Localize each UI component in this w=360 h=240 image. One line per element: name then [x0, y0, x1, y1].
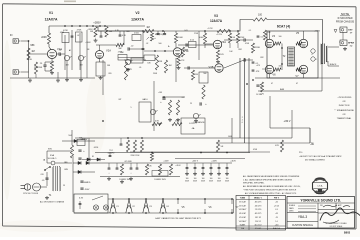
wire OT down [321, 63, 323, 91]
svg-text:6A10: 6A10 [142, 98, 148, 101]
ground chain b [130, 177, 132, 179]
junction input bus [28, 40, 30, 42]
resistor V3B grid [191, 70, 194, 80]
junction top mid [102, 120, 104, 122]
wire mixer vertical 1 [64, 35, 66, 70]
svg-text:470K: 470K [253, 149, 258, 151]
capacitor HV filter 1 [78, 149, 81, 151]
svg-text:.02: .02 [77, 35, 80, 37]
capacitor PI coupling 2 [243, 58, 245, 61]
wire PS vertical main [72, 156, 74, 212]
resistor mid 1 [124, 62, 127, 80]
svg-text:+465 V: +465 V [192, 161, 199, 163]
resistor screen V4 [274, 42, 281, 45]
capacitor filter bank 2 [194, 163, 196, 168]
resistor cathode R3 [50, 61, 53, 71]
svg-text:1M: 1M [107, 65, 110, 67]
wire B+ rail lower [98, 20, 253, 32]
ground input bus [29, 79, 31, 81]
wire V3 coupling top [224, 39, 244, 41]
svg-text:DWG: DWG [289, 211, 294, 213]
junction V3 divider [229, 30, 231, 32]
svg-text:(NO SIGNAL) CURRENT.: (NO SIGNAL) CURRENT. [305, 159, 326, 162]
resistor mid 3 [168, 100, 171, 115]
resistor chain top [150, 153, 153, 162]
resistor tone mid [155, 55, 158, 70]
svg-text:T2: T2 [283, 55, 286, 58]
ground chain c [121, 180, 123, 182]
box voltage selector [181, 118, 205, 134]
wire mid vertical b [175, 58, 177, 82]
svg-text:47: 47 [296, 83, 298, 85]
svg-text:+: + [83, 150, 85, 153]
transformer driver T2 [288, 47, 295, 66]
capacitor coupling C2 [58, 52, 60, 55]
wire V3 divider [230, 31, 238, 48]
title block header [287, 202, 355, 204]
svg-text:+: + [160, 101, 162, 104]
svg-text:INJECTION: INJECTION [339, 105, 350, 107]
capacitor V3A input a [185, 43, 187, 46]
svg-text:DO NOT SCALE: DO NOT SCALE [330, 225, 343, 228]
ground mid [169, 118, 171, 120]
svg-text:→PICKUP/FWD: →PICKUP/FWD [337, 97, 352, 99]
diode rect 2 [86, 161, 89, 164]
resistor mid 2 [164, 60, 167, 73]
svg-text:V5: V5 [296, 31, 300, 35]
svg-text:ALL VOLTAGES MEASURED WITH VTV: ALL VOLTAGES MEASURED WITH VTVM — AC LIN… [245, 192, 297, 195]
svg-text:V3: V3 [214, 14, 218, 18]
svg-text:440 2/70: 440 2/70 [255, 205, 262, 207]
transformer output T3 primary [321, 44, 322, 46]
pot treble [150, 33, 153, 41]
capacitor mid stack a [252, 61, 255, 63]
svg-text:47K: 47K [155, 121, 159, 123]
svg-text:FROM CHASSIS: FROM CHASSIS [336, 21, 355, 24]
svg-text:+170V: +170V [216, 34, 223, 36]
svg-text:410 4 1/2: 410 4 1/2 [254, 225, 261, 227]
table voltages [236, 196, 286, 231]
border frame bottom [3, 226, 356, 229]
junction chain [151, 152, 153, 154]
svg-text:350V: 350V [209, 181, 214, 183]
box V3A input [189, 42, 197, 48]
wire input bus [21, 41, 29, 72]
ground preamp mid [57, 72, 59, 78]
svg-text:BLANK: BLANK [240, 224, 246, 227]
wire heater rail top [108, 198, 234, 200]
svg-text:220K: 220K [255, 47, 261, 49]
wire mid vertical a [102, 60, 104, 95]
svg-text:+: + [108, 173, 110, 175]
svg-text:V4 6CA7: V4 6CA7 [239, 212, 246, 215]
svg-text:4: 4 [316, 59, 317, 61]
svg-text:4A: 4A [192, 127, 195, 130]
wire V2A cathode [99, 59, 101, 63]
wire mid horiz [124, 59, 146, 61]
wire diode row [82, 159, 105, 161]
tube V3B [215, 64, 223, 72]
svg-text:10K: 10K [120, 52, 124, 54]
svg-text:V6: V6 [209, 206, 213, 209]
lamp 2 [103, 205, 108, 210]
heater tap V6 [204, 199, 206, 204]
capacitor cathode bypass C1 [43, 64, 46, 66]
resistor V3A cathode [216, 50, 219, 60]
transformer output core [322, 44, 324, 65]
svg-text:IN: IN [10, 34, 13, 37]
svg-text:470: 470 [275, 145, 279, 147]
wire -230 vertical [291, 110, 293, 138]
ground tone [127, 68, 129, 70]
svg-text:TRANSITIONAL: TRANSITIONAL [337, 117, 352, 120]
pot tremolo [150, 109, 155, 114]
wire HV [62, 140, 95, 142]
wire plate to rail [48, 26, 50, 33]
ground chain a [108, 177, 110, 179]
svg-text:47K: 47K [175, 121, 179, 123]
wire V3 plate drop [198, 31, 200, 60]
svg-text:V1 6CA7: V1 6CA7 [239, 201, 246, 204]
svg-text:25: 25 [40, 63, 43, 65]
junction PI [252, 79, 254, 81]
tube V3B grid wire [184, 67, 215, 69]
svg-text:J6: J6 [310, 142, 314, 146]
wire cathode [51, 59, 53, 61]
capacitor V3B input [187, 66, 189, 69]
box power tubes [267, 31, 318, 78]
resistor chain R61 [145, 164, 148, 175]
capacitor filter bank 1 [186, 163, 188, 168]
ground arrow jacks [334, 30, 337, 33]
ground V1A cathode [51, 71, 53, 73]
svg-text:100MFD 350V: 100MFD 350V [119, 179, 131, 181]
svg-text:100: 100 [279, 36, 282, 38]
svg-text:0: 0 [242, 122, 243, 124]
capacitor filter bank 6 [226, 163, 228, 168]
svg-text:10K: 10K [90, 31, 94, 33]
wire input2 to bus [28, 72, 30, 78]
wire pilot diagonal [92, 196, 103, 200]
resistor rail drop Ra [94, 27, 97, 38]
svg-text:0.005: 0.005 [134, 33, 139, 35]
svg-text:2A: 2A [43, 159, 46, 162]
svg-text:470 50W: 470 50W [124, 161, 131, 163]
svg-text:47K: 47K [256, 71, 260, 73]
resistor 47K pair b [172, 122, 182, 125]
diode PS D4 [87, 158, 90, 161]
svg-text:+465V: +465V [81, 138, 88, 141]
capacitor mid row [120, 143, 123, 145]
svg-text:350V: 350V [217, 181, 222, 183]
svg-text:SPKR: SPKR [348, 43, 354, 45]
svg-text:4.7K: 4.7K [122, 35, 127, 37]
wire HV vertical [71, 130, 73, 145]
svg-text:NOTE: NOTE [341, 12, 349, 16]
resistor V3 divider 1 [228, 33, 231, 43]
svg-text:V1: V1 [49, 11, 53, 15]
diode bias 1 [311, 49, 315, 53]
svg-text:1.5K: 1.5K [231, 37, 236, 39]
ground pot P1 [66, 61, 68, 78]
box mid pot [96, 62, 105, 76]
svg-text:1M: 1M [195, 74, 198, 76]
svg-text:F1A: F1A [50, 154, 55, 157]
capacitor filter bank 3 [202, 163, 204, 168]
svg-text:6.3VCT: 6.3VCT [189, 123, 197, 125]
svg-text:V7: V7 [295, 74, 299, 78]
tube V3A [213, 40, 221, 48]
svg-text:PIN V: PIN V [274, 198, 280, 200]
capacitor HV filter 2 [78, 157, 81, 159]
border frame left [2, 4, 4, 226]
svg-text:350V: 350V [225, 181, 230, 183]
svg-text:-230 V: -230 V [283, 120, 290, 123]
svg-text:V5 6CA7: V5 6CA7 [239, 216, 246, 219]
box presence pot [199, 72, 208, 83]
svg-text:A1: A1 [69, 49, 71, 52]
ground V3A cathode [217, 60, 219, 62]
svg-text:SLO-BLO: SLO-BLO [48, 158, 57, 160]
svg-text:10K: 10K [147, 63, 151, 65]
svg-text:0.05: 0.05 [184, 30, 188, 32]
diode rect 1 [78, 161, 81, 164]
svg-text:350V: 350V [201, 181, 206, 183]
svg-text:+440V: +440V [211, 161, 217, 163]
node rail dots [64, 25, 66, 27]
svg-text:DR: DR [320, 205, 323, 207]
wire bus drop b [86, 70, 88, 78]
box tremolo [139, 102, 151, 122]
svg-text:68K: 68K [30, 44, 35, 47]
border frame top [3, 4, 356, 7]
svg-text:8Ω: 8Ω [350, 46, 353, 48]
svg-text:.02: .02 [131, 46, 135, 48]
wire bus y158 [175, 158, 245, 160]
tube V7 [299, 65, 307, 73]
svg-text:0.1: 0.1 [249, 30, 252, 32]
capacitor chain C40 [108, 167, 111, 169]
resistor V2B plate [174, 33, 177, 43]
capacitor V2A top a [119, 34, 122, 36]
svg-text:GZ34: GZ34 [94, 147, 99, 149]
resistor V3A plate [203, 33, 206, 44]
svg-text:V3A: V3A [221, 40, 226, 44]
svg-text:.02: .02 [59, 55, 62, 57]
svg-text:250K: 250K [153, 73, 158, 75]
resistor V3 divider 2 [236, 33, 239, 43]
pot presence P4 [193, 113, 198, 118]
ground bus preamp [10, 77, 95, 79]
svg-text:100: 100 [279, 66, 282, 68]
tube V4 [265, 39, 273, 47]
svg-text:V4: V4 [166, 206, 169, 208]
svg-text:220K: 220K [38, 67, 43, 69]
svg-text:+285V: +285V [93, 21, 101, 25]
svg-text:NO DIMENSION TO SCALE: NO DIMENSION TO SCALE [325, 222, 347, 225]
svg-text:* * SPEAKER/PHONE: * * SPEAKER/PHONE [334, 109, 354, 112]
svg-text:0.02: 0.02 [190, 40, 195, 42]
svg-text:10K: 10K [148, 166, 152, 168]
heater filament V2 [126, 200, 132, 214]
svg-text:82K: 82K [260, 57, 264, 59]
junction screen [281, 47, 283, 49]
title block row3 divider right [318, 212, 355, 214]
resistor presence [202, 85, 205, 99]
resistor 47K pair a [152, 122, 162, 125]
svg-text:100K: 100K [178, 37, 183, 39]
wire heater rail end [233, 199, 235, 213]
svg-text:1. ALL CAPACITANCE SPECIFIED: 1. ALL CAPACITANCE SPECIFIED ARE IN MFD … [243, 178, 293, 181]
box pilot lamp section [74, 194, 108, 213]
svg-text:12AX7A: 12AX7A [45, 18, 58, 22]
svg-text:SCALE: SCALE [289, 204, 296, 207]
wire V2A grid top [96, 45, 116, 51]
svg-text:SW1: SW1 [48, 149, 52, 151]
svg-text:ALL RESISTANCE VALUES ARE IN O: ALL RESISTANCE VALUES ARE IN OHMS AND WI… [243, 184, 301, 188]
pilot lamp [93, 205, 98, 210]
resistor lower PI [260, 82, 263, 92]
svg-text:1M: 1M [168, 65, 171, 67]
box treble cap [132, 35, 141, 41]
capacitor filter bank 5 [218, 163, 220, 168]
svg-text:12AX7A: 12AX7A [210, 19, 223, 23]
svg-text:465 2/75: 465 2/75 [255, 202, 262, 204]
wire tall vertical 3 [248, 58, 250, 153]
svg-text:YORKVILLE SOUND LTD.: YORKVILLE SOUND LTD. [300, 198, 341, 202]
node rail junction 1 [104, 25, 106, 27]
stamp CSA octagon [313, 179, 328, 194]
svg-text:100MFD 350V: 100MFD 350V [154, 179, 166, 181]
wire OT secondary to jacks [328, 47, 339, 66]
capacitor PI out upper [257, 35, 260, 37]
resistor PI tail [263, 30, 266, 40]
svg-text:47K: 47K [128, 69, 132, 71]
svg-text:+: + [154, 37, 156, 40]
wire to V1A grid [29, 53, 48, 55]
wire screen bus [281, 44, 283, 71]
svg-text:4.7K: 4.7K [181, 60, 186, 62]
capacitor V2A rail drop [100, 31, 102, 36]
svg-text:• THIS POINT GROUNDED THROUGH: • THIS POINT GROUNDED THROUGH POLARITY R… [243, 189, 297, 192]
svg-text:CUSTOM SPECIAL: CUSTOM SPECIAL [292, 224, 314, 227]
svg-text:47: 47 [271, 83, 273, 85]
tube V2B [173, 48, 181, 56]
svg-text:V3: V3 [149, 206, 152, 208]
svg-text:6.3: 6.3 [275, 209, 277, 211]
svg-text:OR: OR [343, 114, 347, 116]
junction mid [163, 96, 165, 98]
capacitor PI coupling 1 [243, 38, 245, 41]
svg-text:EXT: EXT [348, 30, 353, 32]
switch power SW1 [45, 167, 50, 171]
capacitor between mixers [71, 35, 74, 37]
svg-text:10K: 10K [229, 51, 233, 53]
svg-text:5: 5 [131, 107, 132, 109]
resistor rail dropping [143, 29, 154, 32]
svg-text:58 2 1/2: 58 2 1/2 [255, 217, 261, 219]
wire V3A grid feed [178, 44, 214, 46]
capacitor bias feed [256, 84, 259, 86]
capacitor coupling V2A [127, 47, 129, 50]
svg-text:+265V: +265V [87, 29, 93, 31]
capacitor chain C43 [136, 167, 139, 169]
svg-text:DATE: DATE [289, 207, 294, 210]
resistor mid 4 [176, 100, 179, 115]
resistor screen V5 [296, 42, 302, 45]
wire mixer vertical 2 [71, 30, 73, 70]
svg-text:0.1: 0.1 [261, 37, 265, 39]
wire rect row 2 [73, 171, 95, 173]
svg-text:170 1/55: 170 1/55 [255, 209, 262, 211]
svg-text:T1: T1 [49, 194, 52, 197]
svg-text:5U4: 5U4 [68, 135, 71, 137]
svg-text:270K: 270K [194, 33, 199, 35]
resistor plate R2 [47, 33, 50, 44]
svg-text:1M: 1M [186, 51, 189, 53]
svg-text:50K: 50K [118, 48, 122, 50]
wire B+ chain rail [100, 162, 232, 164]
ground speaker [344, 47, 346, 49]
heater filament V3 [143, 200, 149, 214]
title block signature [320, 208, 360, 221]
box bass network [118, 55, 127, 61]
svg-text:.02: .02 [146, 43, 149, 45]
heater tap V7 [231, 199, 233, 204]
svg-text:1K5: 1K5 [220, 54, 224, 56]
wire plate V4 V5 [270, 31, 304, 39]
svg-text:117V 60 CYCLES: 117V 60 CYCLES [23, 193, 39, 195]
resistor chain R63 [169, 164, 172, 175]
resistor rail segment V3 [217, 29, 230, 32]
svg-text:0.1: 0.1 [182, 97, 185, 99]
wire mains to transformer [47, 151, 72, 186]
svg-text:+410V: +410V [175, 165, 181, 167]
svg-text:6CA7 (4): 6CA7 (4) [277, 25, 290, 29]
capacitor pilot [79, 201, 81, 204]
resistor mixer box 2 [76, 32, 83, 42]
title block row2 dividers [287, 212, 318, 214]
box bal pot [77, 140, 85, 146]
resistor to bus a [34, 62, 37, 74]
svg-text:470K: 470K [245, 43, 250, 45]
speaker jack EXT [340, 27, 347, 33]
svg-text:12AX7A: 12AX7A [131, 18, 144, 22]
resistor mid row a [126, 140, 129, 152]
resistor bias adj [216, 140, 219, 152]
svg-text:V5: V5 [182, 206, 186, 209]
capacitor PS C30 [80, 180, 83, 182]
svg-text:V3 12AX7: V3 12AX7 [239, 208, 247, 211]
resistor V2B cathode [177, 56, 180, 66]
wire jack feeds [339, 29, 343, 42]
wire tone row [118, 57, 144, 59]
speaker jack MAIN [340, 40, 347, 46]
svg-text:+410: +410 [275, 225, 279, 227]
wire long vertical mid [153, 81, 155, 131]
resistor chain R62 [158, 164, 161, 175]
svg-text:C.S.A.: C.S.A. [317, 185, 323, 188]
wire right drop to J6 [270, 96, 310, 143]
svg-text:450V: 450V [85, 189, 90, 191]
resistor mid row c [140, 140, 143, 152]
wire mixer vertical 3 [79, 33, 81, 70]
node rail junction 2 [162, 30, 164, 32]
svg-text:.05: .05 [42, 180, 46, 182]
box mid caps [131, 58, 143, 63]
svg-text:+35: +35 [275, 213, 278, 215]
tube V6 [265, 65, 273, 73]
